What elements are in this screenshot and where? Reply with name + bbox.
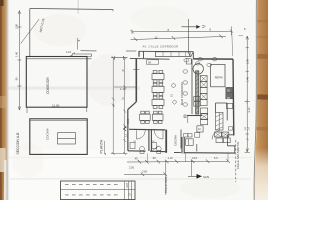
sink counter boxes (184, 134, 188, 137)
dining table T3 (152, 96, 164, 108)
extension line to plan corner (231, 31, 234, 56)
leader line to label (21, 19, 40, 44)
facade window band (155, 52, 190, 57)
dashed street line right (235, 140, 237, 182)
svg-text:COCINA: COCINA (46, 128, 50, 140)
stall door arcs (137, 130, 146, 139)
section rectangle (26, 57, 87, 108)
sinks (130, 142, 135, 148)
facade jog (143, 51, 145, 58)
divided box (186, 139, 194, 146)
bottom equipment boxes (215, 132, 222, 137)
wall diagonal jog (128, 102, 137, 110)
svg-text:SAN: SAN (203, 175, 209, 179)
bar front wall (191, 59, 193, 114)
lower equipment boxes (201, 108, 208, 113)
svg-text:2.80: 2.80 (15, 23, 19, 29)
svg-text:N: N (122, 69, 124, 73)
dining table T5 (152, 111, 163, 123)
svg-text:.45: .45 (134, 156, 138, 160)
bottom right street arrow (188, 175, 197, 177)
bar rear wall (187, 115, 202, 117)
left vertical dimension line (18, 11, 20, 111)
planta inner table (58, 133, 76, 144)
svg-text:COMEDOR: COMEDOR (46, 77, 50, 94)
svg-text:.90: .90 (152, 156, 156, 160)
planta rectangle (30, 119, 87, 155)
svg-text:3.10: 3.10 (247, 107, 251, 113)
svg-text:EST: EST (126, 182, 129, 187)
parapet step detail right of section (77, 38, 79, 50)
bathroom right thick wall (165, 130, 167, 153)
kitchen equipment column (stove) (200, 76, 207, 82)
second bottom dimension line (124, 173, 166, 175)
svg-text:BAR COMEDOR: BAR COMEDOR (180, 81, 184, 105)
dim ticks left of plan (114, 56, 123, 60)
section top outline L (30, 9, 113, 10)
left outside dimension lines (two verticals) (113, 58, 125, 154)
dimension extension below section (27, 107, 87, 113)
kitchen big rect (refrigerator) (211, 64, 225, 86)
svg-text:12: 12 (155, 35, 158, 39)
door arc lower right (212, 131, 220, 140)
lower dimension line with hooks (131, 36, 227, 39)
svg-text:1.40: 1.40 (120, 87, 126, 91)
left wall (135, 58, 137, 101)
lower facade / porch line (130, 57, 170, 60)
bathroom block top wall (129, 128, 165, 131)
toilets (140, 146, 145, 151)
kitchen top wall (193, 58, 233, 60)
entry door swing bottom (152, 146, 159, 151)
svg-text:1.10: 1.10 (168, 156, 174, 160)
sign box on porch (147, 60, 159, 64)
counter box lower kitchen (195, 133, 200, 138)
dark equipment boxes right (226, 87, 233, 92)
dining table T1 (152, 70, 164, 82)
bottom facade walls (128, 150, 146, 152)
equipment box right wall (226, 104, 232, 109)
double door leaves (188, 52, 193, 57)
svg-text:11.00: 11.00 (52, 104, 60, 108)
right wall (232, 59, 235, 135)
small box at bar end (184, 115, 186, 118)
svg-text:SECCION A-B: SECCION A-B (16, 132, 20, 155)
diamond table 2 (172, 100, 177, 105)
svg-text:REFRI: REFRI (215, 75, 223, 79)
top facade wall (139, 50, 194, 52)
right paper edge line (254, 0, 256, 200)
bar counter (hatched strip) (196, 71, 199, 114)
kitchen lower room walls (196, 144, 198, 152)
svg-text:1.40: 1.40 (15, 51, 19, 57)
right vertical dimension line (246, 36, 248, 152)
bar rear wall stub (187, 116, 189, 124)
round table (193, 64, 203, 74)
svg-text:2.50: 2.50 (142, 170, 148, 174)
svg-text:CALLE SAN MARTIN: CALLE SAN MARTIN (236, 142, 240, 169)
lower-right hatched equipment cluster (216, 113, 224, 131)
faint horizontal scan streak (8, 87, 140, 90)
paper background (0, 0, 268, 200)
double wall pier (182, 137, 184, 154)
svg-text:2.80: 2.80 (245, 58, 249, 64)
L-line end tick (112, 10, 114, 12)
svg-text:1.2: 1.2 (124, 133, 127, 137)
left wall tick (133, 69, 140, 71)
dining table T2 (152, 83, 164, 95)
svg-text:.90: .90 (15, 77, 19, 81)
facade left end (138, 51, 140, 56)
left paper edge shadow (7, 0, 10, 200)
svg-text:5.0: 5.0 (214, 156, 218, 160)
top right room wall (192, 52, 194, 59)
svg-text:1.10: 1.10 (66, 50, 72, 54)
bar stools (183, 70, 188, 73)
bottom dimension line (127, 160, 228, 163)
left wood strip (0, 0, 7, 200)
lower left wall (127, 110, 129, 151)
diamond table (171, 83, 176, 88)
bathroom divider walls (149, 130, 152, 151)
kitchen interior walls (216, 103, 228, 121)
dining table T4 (140, 111, 151, 123)
svg-text:3.10: 3.10 (192, 156, 198, 160)
dim line into plan left wall (114, 86, 136, 88)
svg-text:2.50: 2.50 (127, 118, 130, 123)
upper dimension line top right (132, 30, 232, 33)
svg-text:CALLE REAL: CALLE REAL (164, 176, 168, 193)
right wood strip (255, 0, 268, 200)
vertical line below plan (165, 161, 167, 196)
corridor right wall (180, 130, 182, 149)
door threshold box (186, 59, 191, 64)
svg-text:AV. CALLE CORREDOR: AV. CALLE CORREDOR (143, 45, 179, 49)
svg-text:PLANTA: PLANTA (100, 139, 104, 153)
svg-text:1.40: 1.40 (245, 76, 249, 82)
svg-text:COCINA: COCINA (174, 135, 178, 146)
svg-text:2.50: 2.50 (129, 166, 135, 170)
